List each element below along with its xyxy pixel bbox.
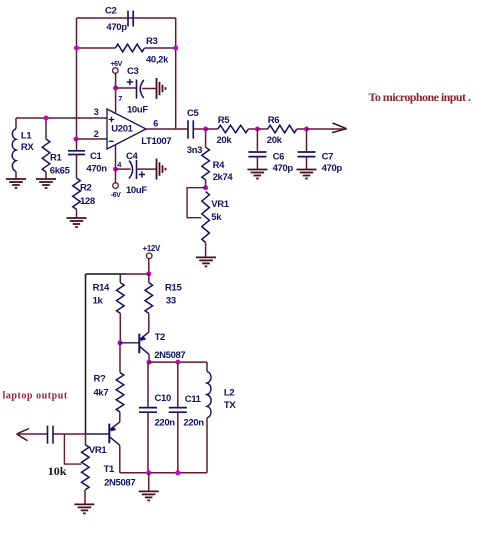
svg-text:C6: C6 bbox=[273, 152, 285, 163]
wire rail maroon segment bbox=[126, 273, 149, 275]
svg-text:10k: 10k bbox=[48, 464, 67, 478]
svg-text:2N5087: 2N5087 bbox=[154, 350, 185, 361]
svg-text:VR1: VR1 bbox=[89, 445, 107, 456]
inductor L1 top wire bbox=[15, 118, 17, 129]
svg-text:R5: R5 bbox=[218, 115, 231, 126]
wire R3 right bbox=[145, 47, 176, 49]
svg-text:6: 6 bbox=[153, 119, 158, 129]
wire node to R6 bbox=[257, 128, 267, 130]
svg-text:2k74: 2k74 bbox=[213, 172, 234, 183]
resistor R15 bbox=[145, 283, 153, 314]
wire C1 top bbox=[76, 139, 78, 151]
ground L1 bbox=[6, 179, 26, 188]
wire arrow to cap bbox=[17, 433, 48, 435]
wire rail black segment bbox=[86, 273, 127, 275]
svg-text:+12V: +12V bbox=[143, 244, 162, 253]
svg-text:TX: TX bbox=[224, 400, 236, 411]
svg-text:3: 3 bbox=[94, 107, 99, 117]
svg-text:128: 128 bbox=[80, 196, 95, 207]
svg-text:10uF: 10uF bbox=[126, 185, 147, 196]
wire R14 top bbox=[119, 274, 121, 283]
svg-text:6k65: 6k65 bbox=[50, 165, 71, 176]
wire feedback left vertical bbox=[76, 18, 78, 139]
potentiometer VR1 bottom wiper loop bbox=[64, 434, 81, 464]
svg-text:5k: 5k bbox=[211, 212, 222, 223]
svg-text:U201: U201 bbox=[111, 124, 133, 135]
svg-text:R14: R14 bbox=[93, 282, 110, 293]
node bottom rail C11 bbox=[175, 470, 180, 475]
svg-text:R6: R6 bbox=[268, 115, 280, 126]
terminal -6V bbox=[113, 183, 119, 189]
capacitor C10 bbox=[139, 407, 157, 409]
node C11 top bbox=[175, 360, 180, 365]
svg-text:4k7: 4k7 bbox=[94, 388, 109, 399]
wire C10 bottom bbox=[147, 412, 149, 473]
svg-text:220n: 220n bbox=[183, 418, 204, 429]
wire junction to C4 bbox=[116, 168, 131, 170]
node C6 tap bbox=[255, 127, 260, 132]
svg-text:T2: T2 bbox=[155, 332, 165, 343]
potentiometer VR1 resistor bbox=[202, 192, 210, 243]
node V+ junction bbox=[113, 86, 118, 91]
svg-text:C7: C7 bbox=[322, 152, 334, 163]
ground C6 bbox=[247, 170, 267, 179]
wire R1 to ground bbox=[45, 172, 47, 179]
wire R4 to VR1 bbox=[205, 180, 207, 188]
svg-text:RX: RX bbox=[21, 142, 35, 153]
svg-text:470n: 470n bbox=[86, 163, 107, 174]
wire C10 top bbox=[147, 362, 149, 407]
svg-text:4: 4 bbox=[117, 160, 122, 169]
node R4-VR1 bbox=[203, 185, 208, 190]
wire V- supply pin bbox=[115, 145, 117, 170]
resistor R1 bbox=[42, 139, 50, 172]
wire -6V stem bbox=[115, 169, 117, 183]
node bottom rail C10 bbox=[146, 470, 151, 475]
ground tank bbox=[139, 491, 159, 500]
svg-text:2: 2 bbox=[94, 129, 99, 139]
wire cap to base node bbox=[53, 433, 86, 435]
svg-text:40,2k: 40,2k bbox=[146, 55, 169, 66]
svg-text:-6V: -6V bbox=[111, 192, 122, 199]
ground C4 sideways bbox=[157, 159, 166, 180]
transistor T1 2N5087 bbox=[86, 422, 120, 445]
terminal +12V bbox=[146, 253, 152, 259]
svg-text:L1: L1 bbox=[21, 130, 32, 141]
wire +6V stem bbox=[115, 73, 117, 88]
svg-text:470p: 470p bbox=[322, 163, 343, 174]
node feedback right bbox=[173, 46, 178, 51]
wire R6 to node bbox=[297, 128, 307, 130]
C3 plus sign bbox=[127, 79, 133, 85]
ground VR1 bbox=[196, 257, 216, 266]
wire 4k7 to T1 emitter bbox=[119, 412, 121, 422]
resistor R6 bbox=[268, 125, 297, 133]
transistor T2 2N5087 bbox=[120, 332, 149, 354]
svg-text:20k: 20k bbox=[267, 135, 283, 146]
wire C7 top bbox=[306, 129, 308, 152]
wire C11 bottom bbox=[177, 412, 179, 473]
wire C7 bottom bbox=[306, 157, 308, 170]
wire ground stem bottom bbox=[148, 473, 150, 492]
wire R5 to node bbox=[248, 128, 257, 130]
svg-text:laptop output: laptop output bbox=[3, 391, 68, 402]
capacitor C3 polarized bbox=[136, 80, 138, 99]
svg-text:R15: R15 bbox=[165, 282, 182, 293]
capacitor C4 polarized bbox=[129, 161, 133, 179]
svg-text:33: 33 bbox=[166, 295, 176, 306]
wire C6 bottom bbox=[256, 157, 258, 170]
wire L1 to ground bbox=[15, 171, 17, 179]
wire R2 to ground bbox=[76, 209, 78, 218]
node +12V rail bbox=[146, 271, 151, 276]
svg-text:+6V: +6V bbox=[110, 61, 122, 68]
node feedback left bbox=[74, 46, 79, 51]
svg-text:T1: T1 bbox=[104, 464, 115, 475]
wire R15 top bbox=[148, 274, 150, 283]
capacitor C6 bbox=[248, 151, 266, 153]
svg-text:10uF: 10uF bbox=[127, 104, 148, 115]
svg-text:220n: 220n bbox=[155, 418, 176, 429]
svg-text:2N5087: 2N5087 bbox=[104, 478, 135, 489]
svg-text:1k: 1k bbox=[93, 295, 104, 306]
wire tank bottom rail bbox=[120, 472, 207, 474]
wire tank top rail bbox=[149, 361, 207, 363]
wire C4 to ground bbox=[137, 168, 157, 170]
capacitor C7 bbox=[298, 151, 316, 153]
wire feedback right vertical bbox=[175, 18, 177, 129]
svg-text:C2: C2 bbox=[105, 6, 117, 17]
svg-text:R3: R3 bbox=[146, 36, 158, 47]
svg-text:C3: C3 bbox=[127, 66, 139, 77]
ground R2 bbox=[67, 218, 87, 227]
capacitor C5 bbox=[187, 120, 189, 138]
svg-text:To microphone input .: To microphone input . bbox=[369, 90, 471, 104]
wire T1 collector down bbox=[119, 445, 121, 473]
wire R1 top bbox=[45, 118, 47, 139]
svg-text:C11: C11 bbox=[185, 394, 202, 405]
input arrow laptop bbox=[17, 429, 29, 441]
inductor L1 bbox=[12, 129, 16, 172]
wire R3 left bbox=[77, 47, 116, 49]
svg-text:VR1: VR1 bbox=[211, 199, 229, 210]
svg-text:7: 7 bbox=[118, 94, 122, 103]
node C7 tap bbox=[304, 127, 309, 132]
wire C11 top bbox=[177, 362, 179, 407]
ground C7 bbox=[297, 170, 317, 179]
svg-text:C5: C5 bbox=[187, 108, 200, 119]
svg-text:470p: 470p bbox=[273, 163, 294, 174]
svg-text:C1: C1 bbox=[90, 151, 103, 162]
wire C3 to ground bbox=[142, 88, 156, 90]
svg-text:R1: R1 bbox=[50, 153, 63, 164]
node tank left top bbox=[147, 360, 152, 365]
wire R4 top bbox=[205, 129, 207, 147]
ground R1 bbox=[36, 179, 56, 188]
svg-text:3n3: 3n3 bbox=[187, 145, 202, 156]
wire VR1 bottom to ground bbox=[84, 490, 86, 505]
node C5-R4-R5 bbox=[203, 127, 208, 132]
svg-text:L2: L2 bbox=[224, 387, 234, 398]
resistor R3 bbox=[115, 44, 144, 52]
potentiometer VR1 bottom resistor bbox=[82, 445, 90, 490]
wire 4k7 top bbox=[119, 343, 121, 373]
terminal +6V bbox=[113, 68, 119, 74]
svg-text:C4: C4 bbox=[126, 151, 139, 162]
node pin2 junction bbox=[74, 137, 79, 142]
svg-text:LT1007: LT1007 bbox=[141, 136, 171, 147]
wire R15 to T2 emitter bbox=[148, 313, 150, 332]
node V- junction bbox=[113, 167, 118, 172]
resistor R5 bbox=[218, 125, 249, 133]
wire output pin6 bbox=[146, 128, 188, 130]
wire op-amp +input pin3 bbox=[16, 117, 107, 119]
wire L2 top lead bbox=[206, 362, 208, 371]
wire VR1 to ground bbox=[205, 243, 207, 258]
potentiometer VR1 wiper loop bbox=[187, 188, 206, 218]
resistor R2 bbox=[73, 178, 81, 209]
op-amp plus mark bbox=[109, 117, 115, 123]
wire V+ supply pin bbox=[115, 88, 117, 114]
capacitor C1 bbox=[68, 150, 85, 152]
wire to C3 bbox=[116, 87, 137, 89]
wire L2 bottom lead bbox=[206, 418, 208, 473]
wire C6 top bbox=[256, 129, 258, 152]
wire R14 to base node bbox=[119, 313, 121, 342]
wire laptop feed black vertical bbox=[85, 274, 87, 434]
wire node to R5 bbox=[206, 128, 218, 130]
svg-text:R4: R4 bbox=[213, 160, 226, 171]
node R1 tap bbox=[44, 116, 49, 121]
svg-text:R2: R2 bbox=[80, 183, 92, 194]
wire T2 collector down bbox=[148, 354, 150, 362]
node T2 base bbox=[118, 340, 123, 345]
op-amp U201 bbox=[107, 109, 146, 149]
output arrow to microphone bbox=[332, 123, 347, 133]
svg-text:R?: R? bbox=[94, 374, 107, 385]
C4 plus sign bbox=[139, 171, 145, 177]
wire op-amp -input pin2 bbox=[76, 138, 107, 140]
ground C3 sideways bbox=[157, 78, 166, 99]
resistor R? 4k7 bbox=[116, 373, 124, 413]
op-amp minus mark bbox=[109, 140, 114, 142]
inductor L2 bbox=[207, 371, 211, 418]
resistor R4 bbox=[202, 147, 210, 180]
wire C1 to R2 bbox=[76, 155, 78, 179]
wire C2 feedback top bbox=[77, 17, 176, 19]
svg-text:20k: 20k bbox=[217, 135, 233, 146]
capacitor C2 bbox=[127, 11, 129, 27]
resistor R14 bbox=[117, 283, 125, 314]
ground VR1 bottom bbox=[74, 504, 94, 513]
svg-text:470p: 470p bbox=[106, 22, 127, 33]
svg-text:C10: C10 bbox=[155, 393, 171, 404]
wire C5 to node bbox=[193, 128, 205, 130]
wire VR1 bottom top stem bbox=[85, 434, 87, 445]
capacitor input coupling bbox=[47, 426, 49, 444]
wire +12V stem bbox=[148, 259, 150, 274]
wire to output arrow bbox=[307, 128, 347, 130]
capacitor C11 bbox=[169, 407, 187, 409]
